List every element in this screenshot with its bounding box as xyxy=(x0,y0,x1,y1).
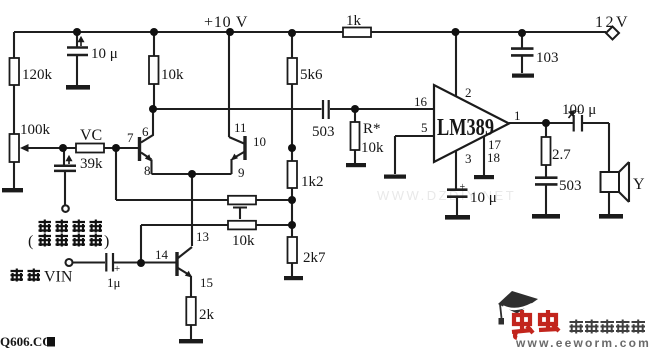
svg-text:2: 2 xyxy=(465,85,472,100)
svg-text:11: 11 xyxy=(234,120,247,135)
svg-text:3: 3 xyxy=(465,151,472,166)
svg-text:503: 503 xyxy=(559,178,582,194)
svg-text:100 μ: 100 μ xyxy=(562,102,596,118)
svg-text:120k: 120k xyxy=(22,67,53,83)
svg-text:16: 16 xyxy=(414,94,428,109)
svg-text:5: 5 xyxy=(421,120,428,135)
svg-text:+: + xyxy=(114,263,120,275)
svg-text:2.7: 2.7 xyxy=(552,147,571,163)
svg-text:): ) xyxy=(104,233,109,250)
svg-text:18: 18 xyxy=(487,150,500,165)
svg-text:6: 6 xyxy=(142,124,149,139)
svg-text:7: 7 xyxy=(127,130,134,145)
svg-text:R*: R* xyxy=(363,121,381,137)
svg-text:Y: Y xyxy=(633,176,645,193)
svg-text:2k7: 2k7 xyxy=(303,250,326,266)
svg-text:10: 10 xyxy=(253,134,266,149)
svg-text:1k: 1k xyxy=(346,13,362,29)
svg-text:LM389: LM389 xyxy=(437,115,494,141)
svg-text:10 μ: 10 μ xyxy=(91,46,118,62)
svg-text:VC: VC xyxy=(80,127,102,144)
svg-text:+: + xyxy=(460,182,466,193)
svg-text:VIN: VIN xyxy=(44,269,73,286)
svg-text:14: 14 xyxy=(155,247,169,262)
svg-text:1: 1 xyxy=(514,108,521,123)
svg-text:12V: 12V xyxy=(595,14,630,31)
svg-text:10k: 10k xyxy=(232,233,255,249)
svg-text:10k: 10k xyxy=(161,67,184,83)
svg-text:103: 103 xyxy=(536,50,559,66)
svg-text:Q606.CO: Q606.CO xyxy=(0,334,52,348)
svg-text:100k: 100k xyxy=(20,122,51,138)
svg-text:+10 V: +10 V xyxy=(204,14,248,31)
svg-text:(: ( xyxy=(28,233,33,250)
svg-text:1k2: 1k2 xyxy=(301,174,324,190)
svg-text:15: 15 xyxy=(200,275,213,290)
svg-text:13: 13 xyxy=(196,229,209,244)
svg-text:39k: 39k xyxy=(80,156,103,172)
svg-text:9: 9 xyxy=(238,165,245,180)
svg-text:1μ: 1μ xyxy=(107,275,121,290)
svg-text:8: 8 xyxy=(144,163,151,178)
svg-text:www.eeworm.com: www.eeworm.com xyxy=(515,336,650,348)
svg-text:10 μ: 10 μ xyxy=(470,190,497,206)
svg-text:10k: 10k xyxy=(361,140,384,156)
svg-text:5k6: 5k6 xyxy=(300,67,323,83)
svg-text:2k: 2k xyxy=(199,307,215,323)
svg-text:503: 503 xyxy=(312,124,335,140)
